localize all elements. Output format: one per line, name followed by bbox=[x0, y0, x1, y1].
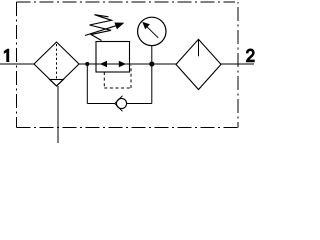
wire: lubricator to port 2 bbox=[221, 63, 254, 65]
node: junction filter outlet / bypass branch bbox=[85, 62, 89, 66]
wire: regulator to lubricator bbox=[130, 63, 177, 65]
enclosure boundary top edge bbox=[17, 1, 236, 3]
check valve V1 ball bbox=[116, 98, 126, 108]
wire: filter to regulator bbox=[79, 63, 96, 65]
filter F1 element (dashed) bbox=[56, 44, 58, 79]
wire: inlet line from port 1 to filter bbox=[0, 63, 34, 65]
pressure gauge G1 dial bbox=[138, 17, 166, 45]
regulator R1 pilot line left (dashed) bbox=[103, 72, 105, 88]
port 2 label bbox=[246, 49, 255, 63]
wire: bypass up to outlet line bbox=[151, 64, 153, 104]
wire: condensate drain bbox=[57, 86, 59, 143]
regulator R1 body (box) bbox=[96, 42, 130, 73]
wire: bypass branch down bbox=[86, 64, 88, 104]
regulator R1 flow path bbox=[96, 63, 130, 65]
enclosure boundary left edge bbox=[16, 2, 18, 128]
regulator R1 right arrowhead bbox=[119, 61, 126, 68]
filter F1 condensate triangle bbox=[50, 80, 64, 87]
wire: bypass bottom right bbox=[127, 103, 152, 105]
regulator R1 left arrowhead bbox=[100, 61, 107, 68]
wire: bypass bottom left bbox=[87, 103, 115, 105]
regulator R1 adjustment arrowhead bbox=[114, 23, 124, 30]
pressure gauge G1 needle bbox=[147, 26, 159, 38]
port 1 label bbox=[4, 49, 9, 62]
enclosure boundary bottom edge bbox=[17, 127, 239, 129]
regulator R1 adjustment arrow bbox=[85, 26, 117, 36]
enclosure boundary right edge bbox=[237, 2, 239, 128]
check valve V1 seat bbox=[115, 96, 123, 112]
filter F1 separator chord bbox=[50, 79, 64, 81]
regulator R1 pilot line bottom (dashed) bbox=[104, 87, 131, 89]
pressure gauge G1 needle arrowhead bbox=[142, 22, 150, 29]
wire: gauge stem bbox=[151, 46, 153, 64]
lubricator L1 oil drip line bbox=[198, 40, 200, 56]
regulator R1 adjustment spring bbox=[90, 15, 112, 41]
node: junction gauge / bypass return bbox=[149, 61, 154, 66]
lubricator L1 body (diamond) bbox=[176, 39, 221, 89]
regulator R1 pilot line right (dashed) bbox=[130, 65, 132, 88]
filter F1 body (diamond) bbox=[34, 42, 79, 86]
